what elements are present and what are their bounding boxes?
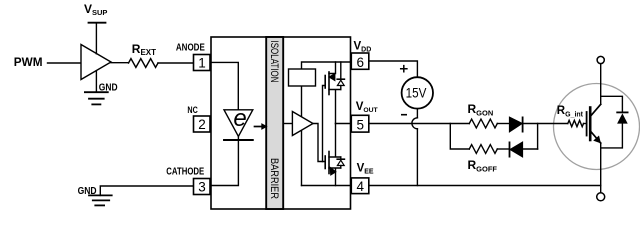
svg-text:NC: NC [187, 105, 197, 116]
svg-text:GND: GND [99, 83, 118, 94]
svg-text:5: 5 [357, 117, 365, 132]
svg-text:4: 4 [357, 179, 365, 194]
svg-text:15V: 15V [406, 84, 427, 100]
svg-text:2: 2 [198, 117, 206, 132]
svg-text:PWM: PWM [14, 57, 43, 69]
svg-text:3: 3 [198, 179, 206, 194]
svg-text:BARRIER: BARRIER [268, 158, 280, 199]
svg-text:ANODE: ANODE [176, 42, 205, 53]
svg-text:CATHODE: CATHODE [166, 166, 204, 177]
svg-text:GND: GND [78, 186, 97, 197]
svg-text:1: 1 [198, 55, 206, 70]
svg-text:6: 6 [357, 55, 365, 70]
svg-text:e: e [233, 105, 246, 132]
svg-text:ISOLATION: ISOLATION [268, 41, 280, 83]
